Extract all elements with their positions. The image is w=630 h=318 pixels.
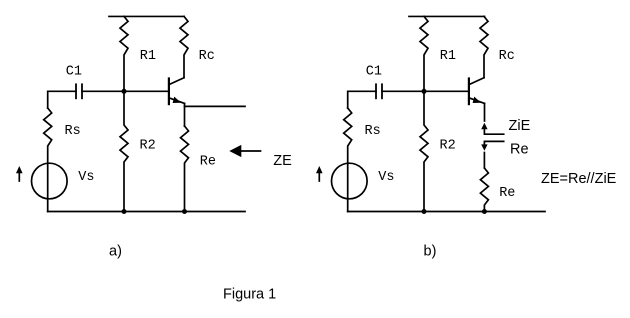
svg-text:R1: R1 bbox=[440, 49, 456, 64]
wire: emitter stub (b) bbox=[484, 103, 486, 121]
svg-text:Re: Re bbox=[499, 186, 515, 201]
wire: emitter output line (a) bbox=[185, 105, 246, 107]
resistor Rs (b) bbox=[344, 108, 352, 212]
svg-text:Rs: Rs bbox=[65, 124, 81, 139]
wire: input corner to C1 left plate (b) bbox=[348, 91, 376, 108]
svg-text:C1: C1 bbox=[66, 64, 82, 79]
wire: bottom ground rail (b) bbox=[348, 211, 545, 213]
voltage source Vs (b) bbox=[332, 163, 368, 199]
resistor Re (b) bbox=[480, 168, 488, 212]
wire: emitter down to Re bbox=[184, 103, 186, 126]
svg-text:R2: R2 bbox=[140, 139, 156, 154]
arrow: source direction (a) bbox=[16, 166, 23, 181]
svg-text:Re: Re bbox=[200, 154, 216, 169]
resistor Re (a) bbox=[181, 126, 189, 212]
svg-text:R2: R2 bbox=[440, 139, 456, 154]
junction: R2-ground (b) bbox=[422, 209, 427, 214]
transistor Q1 bbox=[169, 78, 185, 104]
svg-text:Rc: Rc bbox=[499, 49, 515, 64]
arrow: Re looking down bbox=[481, 141, 504, 150]
svg-text:ZiE: ZiE bbox=[509, 118, 531, 134]
junction: R2-ground (a) bbox=[122, 209, 127, 214]
wire: C1 to base (b) bbox=[382, 90, 469, 92]
svg-text:ZE: ZE bbox=[273, 153, 292, 169]
arrow: ZiE looking up bbox=[481, 123, 504, 134]
voltage source Vs bbox=[32, 163, 68, 199]
capacitor C1 (b) bbox=[376, 84, 382, 98]
junction: Re-ground (a) bbox=[182, 209, 187, 214]
resistor R1 bbox=[120, 16, 128, 91]
resistor R2 bbox=[120, 91, 128, 211]
junction: base node (b) bbox=[422, 89, 427, 94]
svg-text:Figura 1: Figura 1 bbox=[223, 287, 276, 303]
arrow: source direction (b) bbox=[316, 166, 323, 181]
arrow: ZE pointer bbox=[229, 145, 260, 157]
svg-text:a): a) bbox=[109, 243, 122, 259]
svg-text:Rs: Rs bbox=[365, 124, 381, 139]
wire: input corner to C1 left plate bbox=[48, 91, 76, 108]
svg-text:Rc: Rc bbox=[199, 49, 215, 64]
wire: arrow to Re resistor (b) bbox=[483, 153, 485, 169]
svg-text:C1: C1 bbox=[366, 64, 382, 79]
wire: top supply rail (a) bbox=[109, 15, 184, 17]
svg-text:b): b) bbox=[424, 243, 437, 259]
svg-text:Vs: Vs bbox=[78, 170, 94, 185]
wire: bottom ground rail (a) bbox=[48, 211, 245, 213]
svg-text:Re: Re bbox=[510, 141, 529, 157]
transistor Q2 bbox=[469, 78, 485, 104]
svg-text:R1: R1 bbox=[140, 49, 156, 64]
resistor Rc (b) bbox=[480, 16, 488, 77]
capacitor C1 bbox=[76, 84, 82, 98]
resistor Rc bbox=[180, 16, 188, 77]
svg-text:Vs: Vs bbox=[378, 170, 394, 185]
resistor R1 (b) bbox=[420, 16, 428, 91]
junction: Re-ground (b) bbox=[482, 209, 487, 214]
wire: top supply rail (b) bbox=[409, 15, 485, 17]
svg-text:ZE=Re//ZiE: ZE=Re//ZiE bbox=[541, 171, 617, 187]
resistor Rs bbox=[44, 108, 52, 212]
wire: C1 to base node to transistor base bbox=[82, 90, 169, 92]
junction: base node (a) bbox=[122, 89, 127, 94]
resistor R2 (b) bbox=[420, 91, 428, 211]
